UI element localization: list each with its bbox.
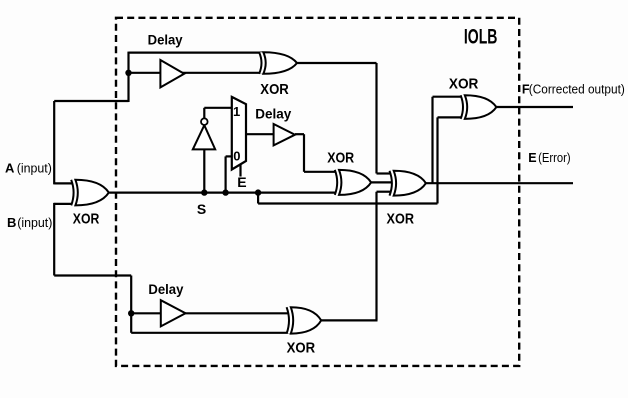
svg-text:(input): (input) — [17, 161, 52, 176]
svg-text:XOR: XOR — [387, 210, 415, 227]
svg-text:(input): (input) — [17, 215, 52, 230]
svg-text:S: S — [197, 201, 206, 217]
svg-text:E: E — [528, 151, 536, 165]
svg-text:XOR: XOR — [287, 340, 316, 357]
svg-text:E: E — [237, 174, 246, 190]
svg-text:0: 0 — [233, 149, 240, 164]
svg-text:Delay: Delay — [148, 282, 183, 297]
svg-text:Delay: Delay — [148, 33, 183, 48]
svg-text:Delay: Delay — [255, 107, 291, 122]
svg-text:(Corrected output): (Corrected output) — [529, 83, 625, 97]
svg-text:(Error): (Error) — [538, 151, 571, 165]
svg-text:B: B — [7, 215, 16, 230]
svg-text:XOR: XOR — [73, 210, 100, 227]
svg-text:XOR: XOR — [260, 81, 289, 98]
svg-text:XOR: XOR — [449, 75, 479, 92]
svg-text:1: 1 — [233, 104, 240, 119]
svg-text:A: A — [5, 161, 15, 176]
svg-text:IOLB: IOLB — [464, 26, 498, 49]
svg-text:XOR: XOR — [327, 149, 354, 166]
